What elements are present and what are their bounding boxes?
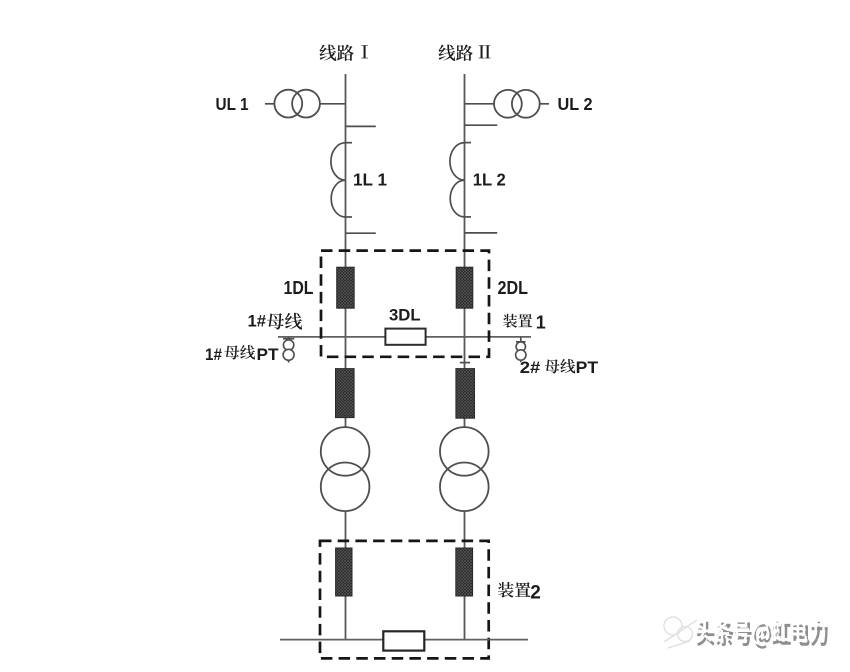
watermark text 头条号@虹电力: [694, 618, 827, 649]
label 装置2: [498, 582, 531, 598]
svg-text:1#: 1#: [248, 311, 267, 330]
wire tick line I lower: [346, 232, 376, 234]
svg-text:1L 2: 1L 2: [473, 169, 506, 189]
breaker 3DL (bus tie): [385, 329, 425, 345]
device box 装置1 (dashed): [321, 251, 489, 357]
svg-text:UL 2: UL 2: [558, 94, 593, 114]
current transformer 1L2: [450, 143, 471, 217]
wire bottom bus: [280, 639, 528, 641]
device box 装置2 (dashed): [320, 541, 489, 659]
breaker box2 line I: [336, 548, 352, 596]
wire line I vertical: [345, 74, 347, 640]
svg-text:2DL: 2DL: [498, 278, 529, 298]
svg-text:PT: PT: [257, 345, 280, 364]
PT 2#母线PT symbol: [516, 337, 526, 362]
label 线路 I: [319, 44, 353, 60]
wire UL1 stub dash: [265, 103, 275, 105]
wire tick line II upper: [465, 124, 498, 126]
svg-text:2#: 2#: [520, 358, 541, 377]
wire UL2 stub dash: [540, 103, 549, 105]
current transformer 1L1: [331, 143, 352, 217]
breaker line II below bus: [456, 369, 475, 419]
wire UL1 to line I: [320, 103, 346, 105]
breaker 2DL: [456, 267, 473, 308]
wire tick line II below box: [460, 362, 470, 364]
watermark logo (faint): [664, 617, 697, 648]
breaker bottom tie (open rect): [383, 631, 424, 650]
transformer T2 (line II): [440, 427, 489, 511]
svg-text:2: 2: [530, 582, 541, 603]
transformer T1 (line I): [321, 427, 370, 511]
label 线路 II: [438, 44, 472, 60]
wire tick line I upper: [346, 125, 376, 127]
svg-text:1: 1: [536, 312, 546, 332]
label 装置1: [503, 314, 532, 328]
wire line II vertical: [464, 74, 466, 640]
transformer UL2: [494, 90, 540, 118]
svg-text:PT: PT: [576, 358, 599, 377]
transformer UL1: [274, 90, 320, 118]
svg-text:1#: 1#: [205, 345, 222, 364]
wire tick line II lower: [465, 232, 498, 234]
svg-text:3DL: 3DL: [389, 305, 421, 324]
breaker 1DL: [337, 267, 355, 308]
PT 1#母线PT symbol: [283, 337, 294, 363]
breaker line I below bus: [336, 369, 355, 418]
svg-text:UL 1: UL 1: [216, 94, 249, 114]
wire line II to UL2: [465, 103, 495, 105]
breaker box2 line II: [456, 548, 473, 596]
svg-text:1L 1: 1L 1: [353, 169, 387, 189]
svg-text:1DL: 1DL: [284, 278, 314, 298]
wire bus 1#母线 horizontal: [278, 336, 531, 338]
